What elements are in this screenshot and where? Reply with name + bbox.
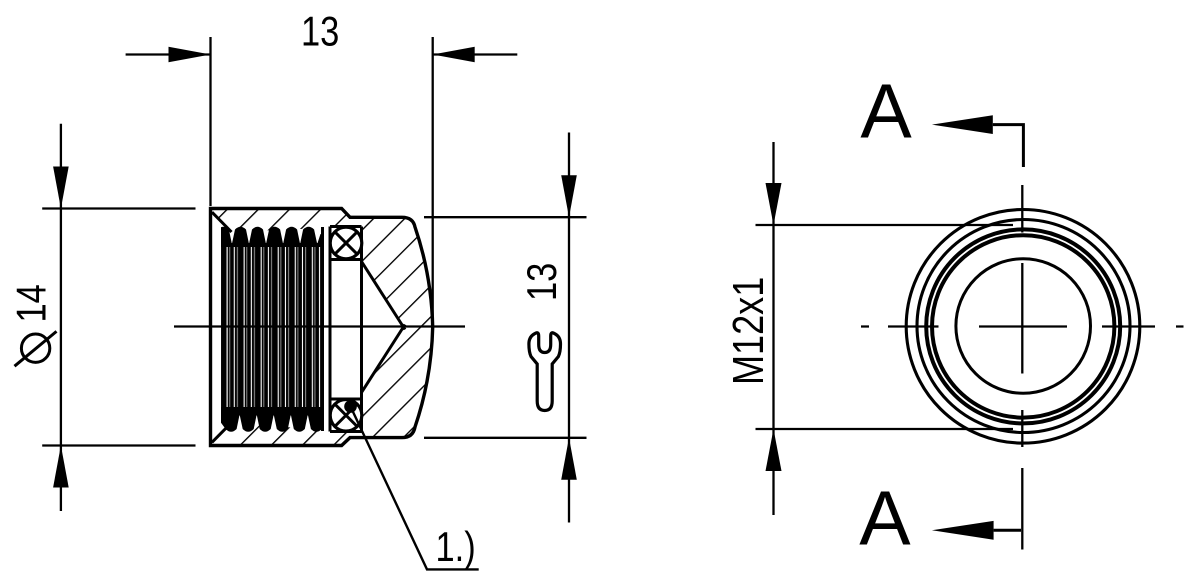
svg-text:1.): 1.) (436, 524, 476, 571)
o-ring bottom (section, crossed) (330, 400, 362, 432)
front view outer circle (906, 209, 1140, 443)
internal thread crests bottom (215, 407, 325, 432)
cavity end face line (360, 227, 363, 432)
internal thread section (striped body) (221, 243, 323, 416)
svg-text:A: A (860, 69, 912, 155)
svg-text:A: A (859, 475, 911, 561)
hatching bottom band of sectioned body (211, 423, 362, 446)
front view second circle (917, 220, 1130, 433)
hatching top band of sectioned body (211, 209, 362, 232)
dimension 13 across flats (wrench size) (424, 133, 587, 523)
section indicator A (bottom) (859, 475, 1021, 561)
thread entry chamfer bottom (212, 423, 232, 443)
o-ring groove top (330, 227, 362, 260)
thread entry chamfer top (212, 212, 232, 232)
section indicator A (top) (860, 69, 1023, 168)
bore wall line (329, 227, 332, 432)
wrench symbol (529, 333, 561, 411)
dimension 13 (top width) (126, 8, 518, 325)
internal cone faces (362, 262, 406, 330)
svg-text:14: 14 (8, 284, 55, 322)
dimension M12x1 (724, 142, 1013, 515)
centerline left view (174, 325, 465, 327)
svg-text:13: 13 (301, 8, 339, 55)
leader line for pos. 1 (o-ring) (344, 400, 357, 413)
thread runout line (321, 227, 324, 431)
o-ring groove bottom (330, 399, 362, 432)
horizontal centerline front view (861, 325, 1184, 327)
vertical centerline front view (1021, 185, 1023, 550)
thread minor circle (932, 235, 1114, 417)
internal thread crests top (215, 227, 323, 247)
svg-text:13: 13 (519, 263, 566, 301)
thread major circle (926, 229, 1120, 423)
o-ring top (section, crossed) (330, 227, 362, 259)
cap body outline (section view) (211, 209, 433, 446)
hatching dome section (362, 217, 433, 437)
dimension dia 14 (left) (8, 124, 195, 511)
bore circle (956, 259, 1091, 394)
svg-text:M12x1: M12x1 (724, 277, 773, 385)
